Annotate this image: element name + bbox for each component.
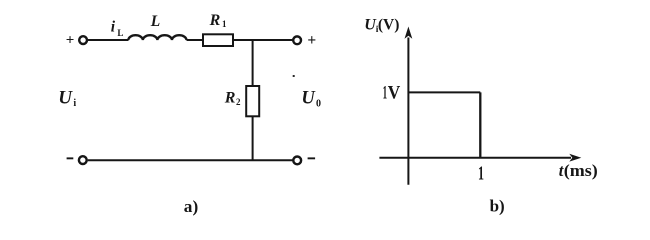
label 1 tick on t axis xyxy=(478,162,484,184)
svg-text:+: + xyxy=(307,32,316,49)
axis vertical (U axis) xyxy=(407,38,409,185)
resistor R1 xyxy=(203,34,233,46)
node - (bottom-left polarity mark) xyxy=(67,157,74,159)
wire inductor to R1 xyxy=(187,39,204,41)
node + (top-left polarity mark) xyxy=(66,32,75,48)
svg-text:i: i xyxy=(111,19,116,36)
label R2 xyxy=(224,90,241,108)
svg-text:L: L xyxy=(150,13,160,30)
wire bottom rail xyxy=(88,159,293,161)
svg-text:V: V xyxy=(388,82,401,103)
label b) sub-figure caption xyxy=(490,197,505,216)
arrowhead t axis xyxy=(569,154,581,162)
svg-text:0: 0 xyxy=(316,98,321,109)
terminal bottom-left xyxy=(79,156,87,164)
svg-text:1: 1 xyxy=(383,82,388,103)
terminal bottom-right xyxy=(293,157,301,165)
svg-text:2: 2 xyxy=(236,97,241,107)
label L xyxy=(150,13,160,30)
label R1 xyxy=(209,12,227,29)
svg-text:U: U xyxy=(58,88,73,109)
svg-text:R: R xyxy=(209,12,221,29)
svg-text:U: U xyxy=(301,89,316,109)
svg-text:i: i xyxy=(73,98,76,109)
node - (bottom-right polarity mark) xyxy=(308,157,316,159)
svg-text:1: 1 xyxy=(478,162,484,184)
wire R2 bottom to bottom rail xyxy=(252,117,254,161)
wire R1 to top-right terminal xyxy=(234,39,292,41)
stray dot artifact xyxy=(293,75,295,77)
axis horizontal (t axis) xyxy=(379,157,571,159)
label U_i(V) axis title xyxy=(364,16,399,35)
svg-text:R: R xyxy=(224,90,236,107)
node U_i (input voltage label) xyxy=(58,88,76,109)
svg-text:a): a) xyxy=(184,197,198,216)
waveform pulse falling edge xyxy=(479,92,481,157)
svg-text:b): b) xyxy=(490,197,505,216)
svg-text:+: + xyxy=(66,32,75,48)
waveform pulse top xyxy=(408,91,480,93)
svg-text:(V): (V) xyxy=(378,17,400,34)
node U_0 (output voltage label) xyxy=(301,89,321,110)
label a) sub-figure caption xyxy=(184,197,198,216)
terminal top-left xyxy=(79,36,87,44)
label t(ms) axis title xyxy=(559,161,598,180)
node + (top-right polarity mark) xyxy=(307,32,316,49)
wire top-left segment xyxy=(88,39,129,41)
node i_L current label xyxy=(111,19,124,39)
resistor R2 xyxy=(246,86,259,116)
svg-text:L: L xyxy=(117,28,123,38)
terminal top-right xyxy=(293,36,301,44)
inductor L xyxy=(128,35,186,40)
arrowhead U axis xyxy=(405,27,413,39)
svg-text:(ms): (ms) xyxy=(564,161,598,180)
svg-text:1: 1 xyxy=(222,19,227,29)
wire junction to R2 top xyxy=(252,40,254,86)
label 1V tick xyxy=(383,82,401,103)
